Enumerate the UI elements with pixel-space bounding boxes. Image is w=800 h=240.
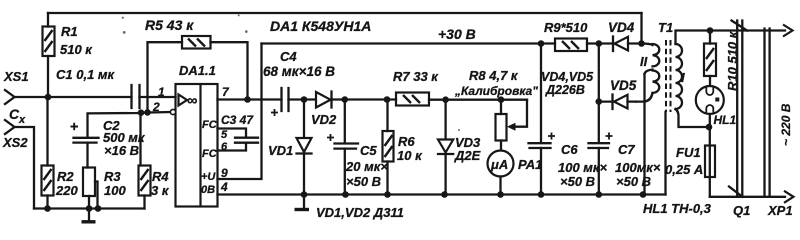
wire core screen to 0V rail [664,112,666,195]
resistor R7 33k [393,69,439,106]
svg-text:I: I [681,70,685,85]
node junction R1/R2 on input line [45,94,52,101]
svg-text:×50 В: ×50 В [560,174,595,189]
svg-text:R6: R6 [398,134,415,149]
diode VD4 Д226В [608,20,642,51]
resistor R5 43k (feedback) [145,17,211,49]
svg-text:C3 47: C3 47 [221,113,254,127]
capacitor C4 68uF 16V [263,49,335,116]
wire C4 to VD2 [289,98,316,100]
svg-text:100: 100 [104,183,126,198]
svg-text:VD4,VD5: VD4,VD5 [541,70,594,84]
svg-text:μА: μА [490,157,508,172]
wire R4 bottom corner to rail [143,196,145,209]
node VD3 junction [442,96,449,103]
wire pin 6 [218,143,247,151]
svg-text:10 к: 10 к [397,148,423,163]
arrow bottom mains to plug [784,191,794,203]
wire R9 right to rectifier node [587,42,613,44]
svg-text:0,25 А: 0,25 А [665,162,703,177]
plug XP1 contact bars (pole 2) [765,29,770,197]
svg-text:R3: R3 [104,169,121,184]
diode VD3 Д2Е (to 0V) [438,100,481,195]
svg-text:100мк×: 100мк× [615,160,661,175]
wire winding I top to mains line [676,31,711,45]
svg-text:R7 33 к: R7 33 к [393,69,439,84]
node C6 junction on +30V rail [538,40,545,47]
capacitor C3 47 (correction) [221,113,258,143]
svg-text:II: II [640,54,648,69]
svg-text:R8 4,7 к: R8 4,7 к [469,68,519,83]
svg-text:R4: R4 [152,169,169,184]
wire winding II bottom to VD5 anode [636,93,653,102]
transformer T1 core [666,40,671,112]
node VD1 bottom junction [301,191,308,198]
svg-text:„Калибровка": „Калибровка" [454,84,538,98]
connector XS2 (input socket) [2,120,28,150]
svg-text:68 мк×16 В: 68 мк×16 В [263,64,335,79]
svg-text:VD1: VD1 [268,143,293,158]
svg-text:C6: C6 [561,142,578,157]
wire R1 top to top rail [47,13,49,27]
resistor R3 100 [83,168,126,199]
capacitor C6 100uF 50V [529,44,608,195]
wire R2 bottom to rail [46,196,48,209]
diode VD1 (to 0V) [268,100,312,195]
node R3 bottom junction [86,205,93,212]
wire HL1 bottom to FU1 [709,114,711,127]
wire C2 top to pin2 net [88,113,140,138]
node R10 top junction [707,27,714,34]
switch Q1 blade (bottom pole) [729,187,743,197]
node C5 junction [342,96,349,103]
svg-text:510 к: 510 к [60,42,93,57]
node Cx (measured capacitor between XS1 and XS2) [9,106,26,126]
node rectifier output junction [596,40,603,47]
wire R2 top to input line [46,97,48,166]
wire R5 right to output node [211,42,248,99]
plug XP1 contact bars (pole 1) [737,21,742,197]
node VD3 bottom junction [441,191,448,198]
capacitor C1 0,1uF [56,67,140,108]
wire rectifier node down to C7 and VD5 [598,44,600,143]
node C5 bottom junction [342,191,349,198]
node C6 bottom junction [538,191,545,198]
op-amp DA1.1 К548УН1А [176,63,218,207]
wire C1 to DA1.1 pin 1 [140,96,176,98]
wire top rail (output feedback rail) [48,12,642,14]
resistor R4 3k [139,166,170,199]
svg-text:100 мк×: 100 мк× [558,160,608,175]
wire mains top line to XP1 [710,29,785,31]
svg-text:∞: ∞ [187,93,197,109]
svg-text:1: 1 [158,85,165,99]
transformer T1 winding I (primary) [676,44,686,109]
svg-text:C1 0,1 мк: C1 0,1 мк [56,67,116,82]
svg-text:PA1: PA1 [518,157,542,172]
ground (middle, 0V) [295,195,310,210]
svg-text:220: 220 [55,183,78,198]
wire R7 to R8 [429,99,527,101]
svg-text:DA1.1: DA1.1 [179,63,216,78]
resistor R10 510k [704,30,740,91]
wire bottom-left common rail [34,207,145,209]
svg-text:4: 4 [220,180,228,194]
pin 2 inverting circle [170,109,175,114]
connector XS1 (input socket) [3,69,29,104]
wire mains bottom line to XP1 [710,196,785,198]
diode VD2 (series detector) [311,92,345,128]
ground (left) [82,209,96,222]
svg-text:HL1 ТН-0,3: HL1 ТН-0,3 [643,201,712,216]
node HL1/FU1 junction [706,124,713,131]
label VD4,VD5 type [541,70,594,97]
node R6 top junction [384,96,391,103]
switch Q1 blade (top pole) [732,21,748,31]
svg-text:C7: C7 [618,142,635,157]
svg-text:R5 43 к: R5 43 к [145,17,194,33]
svg-text:T1: T1 [658,20,673,35]
svg-text:0В: 0В [201,184,215,196]
wire XS2 down to bottom rail [15,127,35,209]
svg-text:~ 220 В: ~ 220 В [779,103,793,146]
wire XS1 to C1 [15,96,132,98]
svg-text:+30 В: +30 В [438,26,476,42]
svg-text:XS1: XS1 [3,69,29,84]
svg-text:VD5: VD5 [610,78,637,93]
svg-text:x: x [18,114,26,126]
node pin2 junction [138,109,145,116]
svg-text:×16 В: ×16 В [104,143,139,158]
resistor R1 510k [43,24,94,57]
capacitor C2 500uF 16V (electrolytic) [71,118,146,158]
transformer T1 winding II (secondary, center-tapped) [640,44,659,93]
wire VD2 to R7 [345,98,396,100]
svg-text:HL1: HL1 [714,113,737,127]
neon lamp HL1 ТН-0,3 [696,86,737,127]
svg-text:Д2Е: Д2Е [454,148,481,163]
svg-text:FC: FC [202,119,218,131]
node output junction [244,96,251,103]
wire R1 bottom to input line [47,56,49,97]
node R6 bottom junction [384,191,391,198]
wire pin 4 to 0V rail [218,193,666,195]
svg-text:Д226В: Д226В [545,83,585,97]
wire R3 bottom to rail [88,196,90,209]
svg-text:+U: +U [201,171,216,183]
svg-text:R1: R1 [61,24,78,39]
node VD5 cathode junction [596,98,603,105]
wire pin2 line to inverting input [141,111,171,114]
svg-text:2: 2 [152,100,160,114]
wire pin 7 output [218,98,282,100]
node R2 bottom junction [44,205,51,212]
svg-text:VD2: VD2 [311,112,337,127]
svg-text:R2: R2 [57,169,74,184]
svg-text:R9*510: R9*510 [544,20,588,35]
fuse FU1 0,25A [665,127,715,197]
node tap junction [95,205,102,212]
wire winding I bottom to HL1/FU1 node [676,109,709,127]
meter PA1 (microammeter) [488,151,543,195]
resistor R6 10k [383,100,424,195]
node center tap junction on 0V [640,191,647,198]
wire pin 9 to +30V rail [218,44,262,180]
wire +30V rail [262,42,556,44]
svg-text:FC: FC [202,148,218,160]
wire center tap down to 0V rail [643,74,645,195]
wire R3 side tap to rail [95,182,98,209]
wire R5 left to pin 2 [148,42,183,112]
svg-text:ХР1: ХР1 [767,203,793,218]
svg-text:VD1,VD2 Д311: VD1,VD2 Д311 [316,205,404,220]
svg-text:FU1: FU1 [676,145,701,160]
wire C2 bottom to R3 top [86,143,88,168]
svg-text:3 к: 3 к [151,183,170,198]
resistor R9* 510 [544,20,588,51]
svg-text:XS2: XS2 [2,135,28,150]
svg-text:5: 5 [221,129,228,141]
svg-text:DA1 К548УН1А: DA1 К548УН1А [270,18,371,34]
svg-text:C5: C5 [360,143,377,158]
svg-text:VD4: VD4 [608,20,635,35]
node R8 top junction [498,96,505,103]
svg-text:×50 В: ×50 В [346,174,381,189]
svg-text:C4: C4 [280,49,297,64]
arrow top mains to plug [783,25,793,37]
wire pin 5 [218,129,247,138]
capacitor C5 20uF 50V [327,100,388,195]
diode VD5 Д226В [599,78,637,109]
svg-text:Q1: Q1 [733,203,750,218]
svg-text:×50 В: ×50 В [616,174,651,189]
node VD1 junction [301,96,308,103]
wire top rail corner down to VD4 anode [640,13,642,44]
node VD4 anode junction [638,40,645,47]
resistor R2 220 [42,166,79,199]
node PA1 bottom junction [497,191,504,198]
wire R4 top to pin2 net [139,113,141,166]
potentiometer R8 4,7k Калибровка [454,68,538,151]
capacitor C7 100uF 50V [589,133,661,195]
node C7 bottom junction [596,191,603,198]
